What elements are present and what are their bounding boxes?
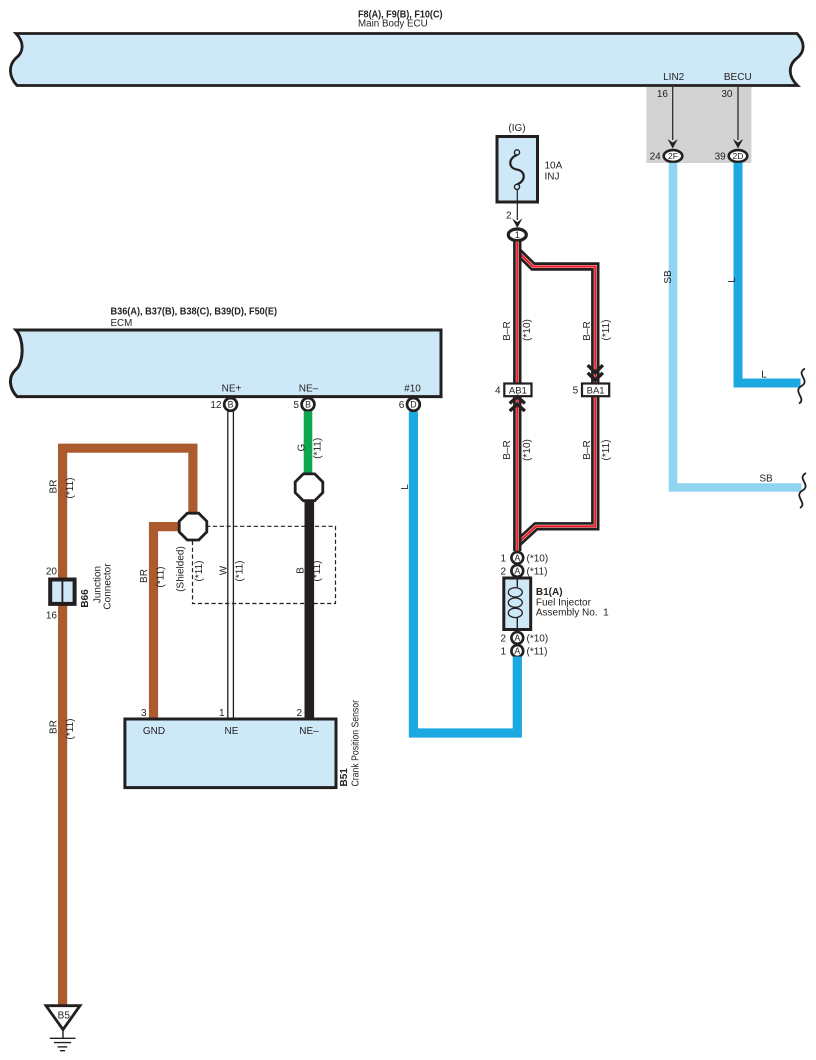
shield octagon 1 (brown wire)	[179, 513, 207, 540]
svg-text:5: 5	[573, 386, 579, 397]
wire L from ECM #10 to injector	[413, 411, 517, 733]
svg-text:B51: B51	[339, 768, 350, 787]
svg-text:(*11): (*11)	[601, 320, 612, 341]
shield dashed box	[193, 526, 336, 603]
svg-text:NE–: NE–	[299, 384, 319, 395]
ground B5	[46, 1006, 80, 1051]
connector A pin 2 (*10) below injector	[500, 632, 548, 644]
connector 2D pin 39	[715, 150, 748, 163]
connector BA1 pin 5	[573, 384, 610, 397]
svg-text:G: G	[296, 443, 307, 451]
label W (*11)	[219, 561, 246, 582]
svg-text:L: L	[400, 484, 411, 490]
wire LIN2 to 2F	[668, 87, 678, 149]
svg-text:(*11): (*11)	[527, 647, 548, 658]
svg-text:SB: SB	[759, 474, 773, 485]
svg-text:2: 2	[500, 633, 506, 644]
svg-text:NE+: NE+	[222, 384, 242, 395]
label Main Body ECU	[358, 9, 443, 29]
label B1(A) Fuel Injector Assembly No. 1	[536, 587, 609, 619]
connector B pin 5 (NE-)	[293, 398, 314, 411]
svg-text:3: 3	[141, 708, 147, 719]
svg-text:(*11): (*11)	[65, 478, 76, 499]
svg-text:D: D	[410, 400, 416, 410]
label B51 Crank Position Sensor	[339, 699, 362, 786]
svg-text:SB: SB	[663, 270, 674, 284]
wire W (white, double line)	[228, 411, 234, 719]
svg-text:10A: 10A	[545, 161, 563, 172]
connector 1	[508, 229, 526, 241]
svg-text:(*11): (*11)	[313, 438, 324, 459]
break symbol L wire	[798, 369, 805, 404]
svg-text:BR: BR	[49, 480, 60, 494]
connector A pin 1 (*10) above injector	[500, 552, 548, 564]
wire B-R right branch upper (to BA1)	[518, 252, 596, 384]
label B-R (*11) upper	[582, 320, 612, 341]
label BR (*11) middle	[139, 567, 167, 588]
svg-text:B36(A), B37(B), B38(C), B39(D): B36(A), B37(B), B38(C), B39(D), F50(E)	[111, 307, 278, 318]
arrow out of AB1 (up chevron)	[510, 397, 525, 411]
wire fuse to connector 1	[506, 190, 522, 229]
svg-text:B66: B66	[80, 589, 91, 608]
svg-text:1: 1	[500, 553, 506, 564]
svg-text:A: A	[514, 553, 520, 563]
svg-text:6: 6	[399, 400, 405, 411]
wire B (black) below shield octagon	[304, 500, 314, 719]
svg-text:#10: #10	[404, 384, 421, 395]
wire SB from 2F	[673, 163, 802, 488]
svg-text:(*10): (*10)	[522, 439, 533, 461]
svg-text:1: 1	[500, 647, 506, 658]
connector A pin 1 (*11) below injector	[500, 645, 547, 657]
svg-text:16: 16	[657, 89, 669, 100]
fuel injector B1(A) box	[504, 578, 531, 630]
svg-text:NE: NE	[225, 726, 239, 737]
wire G (green)	[304, 411, 313, 474]
svg-text:B: B	[228, 400, 234, 410]
connector AB1 pin 4	[495, 384, 532, 397]
wire BR main (ground to junction, up and over to shield)	[63, 448, 193, 1004]
svg-text:B–R: B–R	[582, 321, 593, 340]
svg-text:INJ: INJ	[545, 172, 560, 183]
svg-text:BECU: BECU	[724, 72, 752, 83]
svg-text:(IG): (IG)	[508, 123, 525, 134]
svg-text:L: L	[727, 277, 738, 283]
svg-text:(*11): (*11)	[155, 567, 166, 588]
svg-text:(*11): (*11)	[601, 440, 612, 461]
label BR (*11) lower left	[49, 719, 77, 740]
label (Shielded) (*11)	[176, 546, 206, 592]
svg-text:5: 5	[293, 400, 299, 411]
svg-text:GND: GND	[143, 726, 165, 737]
label BR (*11) upper left	[49, 478, 77, 499]
svg-text:(*10): (*10)	[527, 553, 549, 564]
wire B-R left main (connector 1 to injector)	[513, 242, 521, 552]
connector D pin 6 (#10)	[399, 398, 420, 411]
svg-text:(Shielded): (Shielded)	[176, 546, 187, 592]
svg-text:4: 4	[495, 386, 501, 397]
label B-R (*10) upper	[502, 319, 533, 341]
label B (*11)	[296, 561, 324, 582]
svg-text:24: 24	[650, 152, 662, 163]
svg-text:Main Body ECU: Main Body ECU	[358, 18, 428, 29]
svg-text:AB1: AB1	[509, 386, 527, 397]
svg-text:B: B	[296, 567, 307, 574]
svg-text:(*11): (*11)	[65, 719, 76, 740]
arrow into BA1 (down chevron)	[588, 365, 603, 380]
connector 2F pin 24	[650, 150, 683, 163]
connector B pin 12 (NE+)	[210, 398, 237, 411]
wire BECU to 2D	[733, 87, 743, 149]
shield octagon 2 (green/black wire)	[295, 474, 323, 501]
svg-text:BR: BR	[139, 569, 150, 583]
svg-text:2F: 2F	[668, 151, 678, 161]
svg-text:2: 2	[506, 211, 512, 222]
svg-text:A: A	[514, 566, 520, 576]
label ECM	[111, 307, 278, 329]
label B66 Junction Connector	[80, 563, 114, 610]
svg-text:2D: 2D	[733, 151, 744, 161]
crank position sensor B51 box	[125, 708, 336, 788]
svg-text:(*11): (*11)	[527, 566, 548, 577]
svg-text:39: 39	[715, 152, 727, 163]
svg-text:Crank Position Sensor: Crank Position Sensor	[351, 699, 362, 786]
svg-text:16: 16	[46, 611, 58, 622]
svg-text:20: 20	[46, 567, 58, 578]
svg-text:1: 1	[515, 230, 520, 240]
svg-text:LIN2: LIN2	[663, 72, 685, 83]
svg-text:B–R: B–R	[502, 321, 513, 340]
svg-text:L: L	[761, 370, 767, 381]
svg-text:BA1: BA1	[587, 386, 605, 397]
wire B-R right branch lower (from BA1)	[518, 396, 596, 543]
svg-text:(*10): (*10)	[522, 319, 533, 341]
svg-text:W: W	[219, 565, 230, 575]
fuse 10A INJ (IG)	[497, 123, 563, 202]
svg-text:B: B	[305, 400, 311, 410]
svg-text:BR: BR	[49, 720, 60, 734]
svg-text:Connector: Connector	[103, 563, 114, 610]
connector A pin 2 (*11) above injector	[500, 565, 547, 577]
junction connector B66	[46, 567, 75, 622]
wire BR from shield octagon to sensor GND	[154, 527, 180, 719]
shaded junction block below Main Body ECU	[646, 87, 751, 163]
svg-text:A: A	[514, 633, 520, 643]
svg-text:ECM: ECM	[111, 318, 133, 329]
svg-text:(*11): (*11)	[194, 561, 205, 582]
label B-R (*11) lower	[582, 440, 612, 461]
svg-text:(*11): (*11)	[312, 561, 323, 582]
svg-text:B–R: B–R	[582, 440, 593, 459]
svg-text:(*11): (*11)	[234, 561, 245, 582]
svg-text:12: 12	[210, 400, 222, 411]
ECU band Main Body ECU F8/F9/F10	[10, 34, 803, 86]
label G (*11)	[296, 438, 323, 459]
wire L from 2D	[738, 163, 801, 383]
svg-text:NE–: NE–	[299, 726, 319, 737]
svg-text:2: 2	[500, 566, 506, 577]
svg-text:A: A	[514, 646, 520, 656]
ECU band ECM B36/B37/B38/B39/F50	[10, 330, 441, 397]
svg-text:1: 1	[219, 708, 225, 719]
svg-text:30: 30	[721, 89, 733, 100]
break symbol SB wire	[799, 473, 806, 508]
label B-R (*10) lower	[502, 439, 533, 461]
svg-text:(*10): (*10)	[527, 633, 549, 644]
svg-text:B5: B5	[58, 1011, 71, 1022]
svg-text:Assembly No. 1: Assembly No. 1	[536, 608, 609, 619]
svg-text:2: 2	[296, 708, 302, 719]
svg-text:B–R: B–R	[502, 440, 513, 459]
